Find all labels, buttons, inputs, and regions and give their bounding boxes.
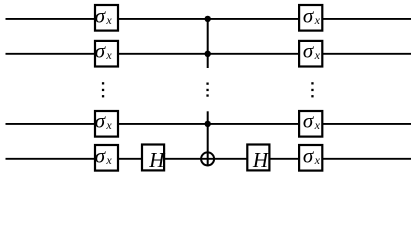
svg-text:x: x	[105, 118, 112, 132]
svg-text:σ: σ	[303, 38, 315, 62]
svg-text:σ: σ	[303, 144, 315, 168]
svg-text:σ: σ	[95, 4, 107, 28]
wire q3	[6, 123, 412, 125]
wire q1	[6, 18, 412, 20]
gate sigma-x U7 (right, wire q1)	[299, 4, 322, 31]
svg-text:σ: σ	[303, 109, 315, 133]
svg-text:x: x	[105, 13, 112, 27]
svg-text:H: H	[252, 148, 270, 172]
wire q4	[6, 158, 412, 160]
svg-text:σ: σ	[95, 109, 107, 133]
svg-text:σ: σ	[95, 38, 107, 62]
gate sigma-x U4 (left, wire q4)	[95, 144, 118, 171]
svg-text:x: x	[314, 118, 321, 132]
wire control vertical upper segment	[207, 19, 209, 68]
wire q2	[6, 53, 412, 55]
gate sigma-x U8 (right, wire q2)	[299, 38, 322, 66]
svg-text:σ: σ	[303, 4, 315, 28]
gate sigma-x U2 (left, wire q2)	[95, 38, 118, 66]
CNOT target (XOR) on wire q4	[201, 152, 214, 165]
gate H U6 (wire q4, right of target)	[247, 145, 270, 172]
gate H U5 (wire q4, left of target)	[142, 145, 166, 172]
control dot node q1	[205, 16, 211, 22]
svg-text:H: H	[148, 148, 166, 172]
control dot node q2	[205, 51, 211, 57]
svg-text:x: x	[314, 153, 321, 167]
svg-text:x: x	[105, 153, 112, 167]
gate sigma-x U3 (left, wire q3)	[95, 109, 118, 137]
svg-text:x: x	[314, 48, 321, 62]
ellipsis right column	[311, 82, 313, 97]
wire control vertical lower segment	[207, 111, 209, 166]
ellipsis left column	[102, 82, 104, 97]
svg-text:x: x	[105, 48, 112, 62]
svg-text:x: x	[314, 13, 321, 27]
control dot node q3	[205, 121, 211, 127]
ellipsis middle column	[206, 83, 208, 97]
gate sigma-x U10 (right, wire q4)	[299, 144, 322, 171]
gate sigma-x U1 (left, wire q1)	[95, 4, 118, 31]
gate sigma-x U9 (right, wire q3)	[299, 109, 322, 137]
svg-text:σ: σ	[95, 144, 107, 168]
